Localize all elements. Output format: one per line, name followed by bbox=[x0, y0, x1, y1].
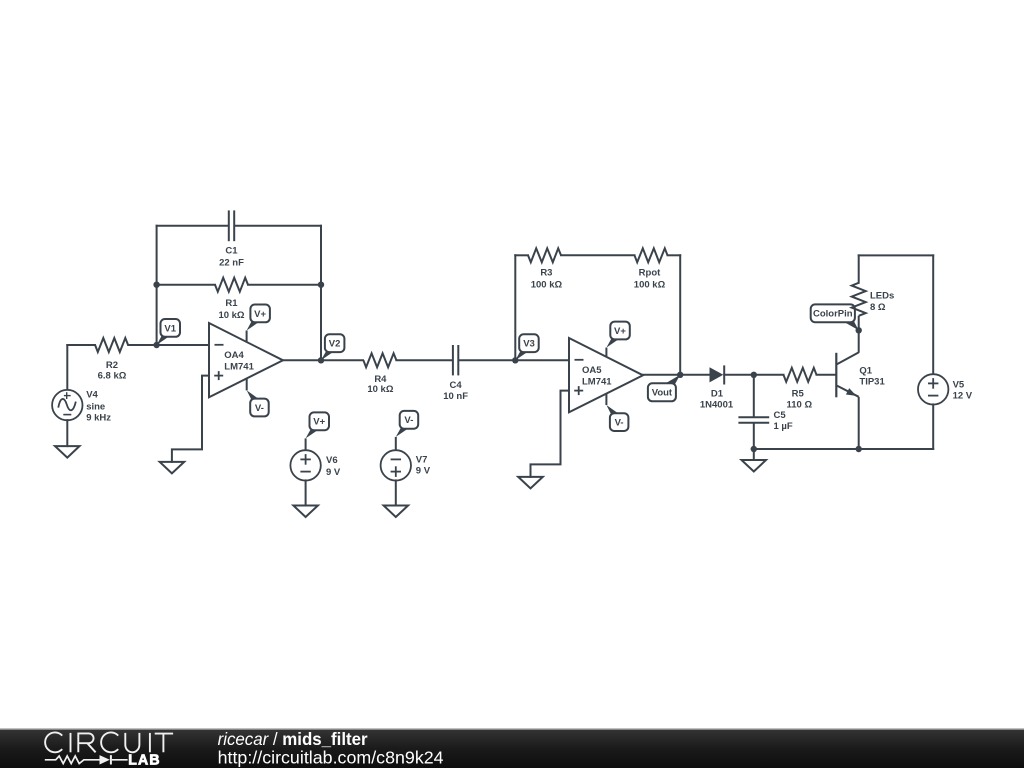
ground V7 ground bbox=[384, 506, 409, 518]
wire C4 to OA5 inverting input bbox=[459, 359, 569, 361]
flag node Vout bbox=[648, 375, 680, 402]
wire V7 to ground bbox=[395, 480, 397, 505]
op-amp OA4 V- pin wire bbox=[246, 379, 248, 391]
svg-text:V1: V1 bbox=[164, 323, 176, 334]
wire OA4 output to R4 bbox=[283, 359, 363, 361]
voltage source V6 bbox=[290, 450, 320, 480]
op-amp OA4 V+ pin wire bbox=[246, 331, 248, 343]
wire OA5 non-inverting input to ground bbox=[531, 391, 570, 477]
node Vout junction dot bbox=[677, 372, 683, 378]
wire V6 to ground bbox=[305, 480, 307, 505]
wire R4 to C4 bbox=[396, 359, 452, 361]
capacitor C5 bbox=[738, 375, 769, 449]
svg-text:12 V: 12 V bbox=[953, 391, 973, 402]
svg-text:ricecar / mids_filter: ricecar / mids_filter bbox=[218, 729, 368, 749]
wire C1 left lead bbox=[157, 225, 228, 227]
footer bar bbox=[0, 728, 1024, 768]
wire OA5 output to D1 bbox=[643, 374, 710, 376]
svg-text:6.8 kΩ: 6.8 kΩ bbox=[98, 371, 127, 382]
svg-text:9 V: 9 V bbox=[416, 465, 431, 476]
svg-text:R5: R5 bbox=[792, 388, 805, 399]
op-amp OA5 V+ pin wire bbox=[605, 348, 607, 357]
wire V4 to ground bbox=[66, 420, 68, 446]
voltage source V7 bbox=[381, 450, 411, 480]
svg-text:http://circuitlab.com/c8n9k24: http://circuitlab.com/c8n9k24 bbox=[218, 748, 444, 768]
svg-text:R2: R2 bbox=[106, 360, 118, 371]
wire R1 right lead bbox=[248, 284, 321, 286]
svg-text:D1: D1 bbox=[711, 388, 724, 399]
svg-text:10 kΩ: 10 kΩ bbox=[218, 310, 244, 321]
resistor R2 bbox=[95, 338, 128, 352]
flag ColorPin bbox=[811, 304, 859, 330]
wire right rail upper bbox=[932, 255, 934, 374]
svg-text:8 Ω: 8 Ω bbox=[870, 302, 886, 313]
flag OA5 V- bbox=[606, 405, 628, 431]
node ColorPin node junction dot bbox=[856, 327, 862, 333]
resistor LEDs (vertical) bbox=[852, 283, 866, 316]
svg-text:C1: C1 bbox=[225, 245, 238, 256]
wire OA4 non-inverting input to ground bbox=[172, 376, 209, 462]
svg-text:sine: sine bbox=[86, 401, 105, 412]
capacitor C4 bbox=[453, 345, 458, 375]
wire feedback left vertical bbox=[156, 226, 158, 345]
svg-text:C4: C4 bbox=[450, 380, 463, 391]
wire ground stem bbox=[753, 449, 755, 460]
svg-text:1 µF: 1 µF bbox=[774, 421, 793, 432]
svg-text:Rpot: Rpot bbox=[639, 268, 661, 279]
transistor Q1 TIP31 bbox=[836, 352, 858, 397]
svg-text:R1: R1 bbox=[225, 298, 238, 309]
flag OA4 V+ bbox=[247, 305, 270, 331]
diode D1 1N4001 bbox=[710, 365, 725, 384]
wire feedback right vertical bbox=[320, 226, 322, 360]
svg-text:V2: V2 bbox=[329, 339, 341, 350]
op-amp OA5 LM741 bbox=[569, 338, 643, 412]
wire V7 flag stem bbox=[395, 437, 397, 451]
svg-text:V7: V7 bbox=[416, 454, 428, 465]
svg-text:V-: V- bbox=[404, 415, 413, 426]
op-amp OA5 V- pin wire bbox=[605, 393, 607, 405]
ground output ground bbox=[742, 460, 767, 472]
svg-text:22 nF: 22 nF bbox=[219, 257, 244, 268]
svg-text:100 kΩ: 100 kΩ bbox=[531, 279, 563, 290]
svg-text:V5: V5 bbox=[953, 380, 965, 391]
op-amp OA4 LM741 bbox=[209, 323, 283, 397]
node V2 junction dot bbox=[318, 357, 324, 363]
svg-text:V+: V+ bbox=[614, 326, 626, 337]
svg-text:V6: V6 bbox=[326, 455, 338, 466]
wire feedback2 top lead left bbox=[515, 254, 528, 256]
wire V6 flag stem bbox=[305, 438, 307, 450]
wire V4 to input row bbox=[66, 345, 68, 390]
node C5-rail junction dot bbox=[751, 446, 757, 452]
svg-text:110 Ω: 110 Ω bbox=[787, 400, 813, 411]
ground V4 ground bbox=[55, 446, 80, 458]
resistor R3 bbox=[528, 248, 561, 262]
node R1-C1 right junction dot bbox=[318, 282, 324, 288]
node D1-C5 node junction dot bbox=[751, 372, 757, 378]
flag node V1 bbox=[157, 319, 180, 345]
svg-text:LAB: LAB bbox=[128, 753, 161, 768]
svg-text:V+: V+ bbox=[313, 417, 325, 428]
svg-text:OA5: OA5 bbox=[582, 365, 602, 376]
svg-text:9 kHz: 9 kHz bbox=[86, 413, 111, 424]
wire bottom rail bbox=[754, 448, 933, 450]
svg-text:V3: V3 bbox=[523, 339, 535, 350]
flag node V3 bbox=[515, 334, 538, 360]
resistor R5 bbox=[784, 368, 817, 382]
wire R5 to Q1 base bbox=[817, 374, 835, 376]
wire feedback2 right vertical bbox=[679, 255, 681, 374]
svg-text:OA4: OA4 bbox=[224, 350, 244, 361]
ground V6 ground bbox=[293, 506, 318, 518]
flag OA4 V- bbox=[247, 390, 269, 416]
wire D1 to R5 bbox=[724, 374, 783, 376]
wire top rail bbox=[859, 254, 934, 256]
svg-text:R3: R3 bbox=[540, 268, 552, 279]
node R1-C1 left junction dot bbox=[153, 282, 159, 288]
svg-text:10 nF: 10 nF bbox=[443, 391, 468, 402]
wire Q1 collector vertical bbox=[858, 316, 860, 353]
svg-text:C5: C5 bbox=[774, 410, 787, 421]
svg-text:V-: V- bbox=[615, 418, 624, 429]
resistor Rpot bbox=[635, 248, 668, 262]
wire feedback2 left vertical bbox=[514, 255, 516, 360]
wire Q1 emitter vertical bbox=[858, 397, 860, 449]
flag OA5 V+ bbox=[606, 322, 629, 348]
node emitter-rail junction dot bbox=[856, 446, 862, 452]
ground OA5 + ground bbox=[518, 477, 543, 489]
wire input row to R2 bbox=[67, 344, 95, 346]
svg-text:100 kΩ: 100 kΩ bbox=[634, 279, 666, 290]
svg-text:V4: V4 bbox=[86, 390, 98, 401]
svg-text:TIP31: TIP31 bbox=[859, 377, 885, 388]
svg-text:V+: V+ bbox=[254, 309, 266, 320]
capacitor C1 bbox=[229, 210, 234, 241]
CircuitLab logo resistor-diode glyph bbox=[45, 755, 128, 764]
wire R3 to Rpot bbox=[561, 254, 635, 256]
svg-text:LEDs: LEDs bbox=[870, 291, 894, 302]
wire C1 right lead bbox=[235, 225, 321, 227]
svg-text:LM741: LM741 bbox=[224, 362, 254, 373]
resistor R4 bbox=[363, 353, 396, 367]
svg-text:1N4001: 1N4001 bbox=[700, 400, 734, 411]
svg-text:Q1: Q1 bbox=[859, 366, 872, 377]
node V1 junction dot bbox=[153, 342, 159, 348]
flag V6 V+ flag bbox=[306, 412, 329, 438]
svg-text:ColorPin: ColorPin bbox=[813, 309, 853, 320]
svg-text:V-: V- bbox=[255, 403, 264, 414]
CircuitLab logo CIRCUIT (hand-drawn thin letters) bbox=[45, 732, 173, 752]
resistor R1 bbox=[215, 278, 248, 292]
ground OA4 + ground bbox=[160, 462, 185, 474]
svg-text:10 kΩ: 10 kΩ bbox=[367, 384, 393, 395]
flag node V2 bbox=[321, 334, 344, 360]
voltage source V4 bbox=[52, 390, 82, 420]
wire R2 to OA4 inverting input bbox=[128, 344, 209, 346]
node V3 junction dot bbox=[512, 357, 518, 363]
wire R1 left lead bbox=[157, 284, 215, 286]
wire LEDs top lead bbox=[858, 255, 860, 282]
svg-text:Vout: Vout bbox=[652, 388, 673, 399]
wire feedback2 top lead right bbox=[668, 254, 681, 256]
voltage source V5 bbox=[918, 374, 948, 404]
flag V7 V- flag bbox=[396, 411, 418, 437]
svg-text:LM741: LM741 bbox=[582, 377, 612, 388]
wire right rail lower bbox=[932, 404, 934, 449]
svg-text:9 V: 9 V bbox=[326, 467, 341, 478]
